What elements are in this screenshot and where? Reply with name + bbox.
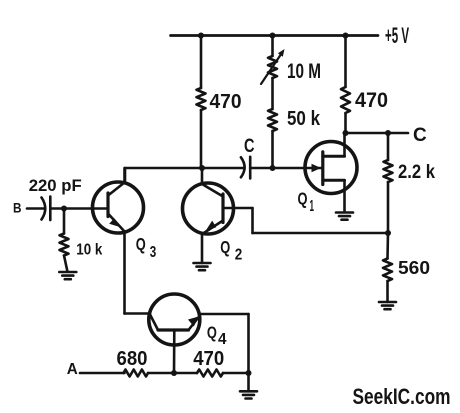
svg-text:A: A	[67, 361, 78, 378]
node drain-470R	[343, 130, 349, 136]
resistor 10M variable	[261, 36, 285, 85]
resistor R 470 left	[197, 36, 206, 169]
svg-text:2: 2	[235, 247, 243, 264]
svg-text:220 pF: 220 pF	[29, 176, 82, 195]
transistor Q4	[149, 294, 200, 345]
svg-text:10 M: 10 M	[287, 60, 321, 83]
capacitor C coupling	[241, 157, 250, 179]
resistor 10k	[60, 209, 69, 272]
resistor 50k	[268, 78, 277, 168]
transistor Q3	[93, 182, 144, 233]
wire mid bus left	[125, 168, 245, 183]
svg-text:Q: Q	[136, 234, 146, 254]
svg-text:10 k: 10 k	[76, 242, 102, 259]
svg-text:Q: Q	[298, 188, 308, 208]
wire +5V rail	[171, 34, 379, 37]
wire Q2 base to 560 node	[223, 208, 388, 233]
svg-text:680: 680	[117, 348, 148, 370]
svg-text:470: 470	[193, 348, 224, 370]
svg-text:50 k: 50 k	[287, 108, 321, 130]
wire 680 to 470	[148, 372, 197, 375]
wire Q4 emitter right and down	[200, 314, 249, 373]
wire to output C	[346, 132, 409, 135]
resistor 2.2k	[384, 133, 393, 233]
capacitor 220pF input	[27, 197, 50, 221]
svg-text:C: C	[244, 136, 255, 157]
svg-text:C: C	[413, 125, 427, 146]
wire corner to ground	[247, 373, 250, 391]
svg-text:4: 4	[218, 331, 227, 348]
wire Q4 base down	[173, 330, 176, 373]
ground below Q1	[336, 213, 353, 220]
svg-text:SeekIC.com: SeekIC.com	[353, 384, 451, 409]
svg-text:Q: Q	[220, 237, 230, 257]
svg-text:560: 560	[398, 257, 430, 278]
node 560 top	[385, 230, 391, 236]
node 10k top	[61, 206, 67, 212]
svg-text:1: 1	[310, 198, 315, 215]
svg-text:+5 V: +5 V	[385, 23, 409, 48]
wire cap to gate	[250, 167, 323, 170]
node A-line corner	[246, 370, 252, 376]
wire Q3 emitter down to Q4	[125, 232, 151, 314]
wire 470L node to Q2	[201, 168, 204, 184]
wire 470 to corner	[223, 372, 249, 375]
ground below 560	[379, 302, 396, 309]
node rail-10M	[270, 33, 276, 39]
node Q4 base-A line	[171, 370, 177, 376]
node 470L-Q2	[199, 165, 205, 171]
wire input A	[80, 372, 125, 375]
node C-2.2k	[385, 130, 391, 136]
node rail-470L	[198, 33, 204, 39]
wire Q3 collector up	[123, 168, 126, 183]
svg-text:2.2 k: 2.2 k	[398, 162, 435, 183]
resistor 560	[383, 233, 392, 302]
ground below Q2	[194, 263, 211, 270]
wire cap to Q3 base	[50, 207, 108, 210]
svg-text:470: 470	[210, 91, 242, 113]
svg-text:470: 470	[355, 89, 388, 112]
resistor 470 bottom	[197, 370, 223, 377]
svg-text:B: B	[13, 200, 22, 216]
ground bottom right	[240, 391, 257, 398]
resistor R 470 right	[341, 36, 350, 134]
resistor 680	[124, 370, 149, 377]
wire Q2 emitter to ground	[201, 234, 204, 264]
svg-text:Q: Q	[207, 324, 217, 342]
node 50k-bus	[270, 165, 276, 171]
svg-text:3: 3	[150, 244, 157, 261]
ground below 10k	[59, 272, 76, 279]
transistor Q1 FET	[305, 133, 357, 212]
transistor Q2	[183, 183, 234, 234]
node rail-470R	[343, 33, 349, 39]
